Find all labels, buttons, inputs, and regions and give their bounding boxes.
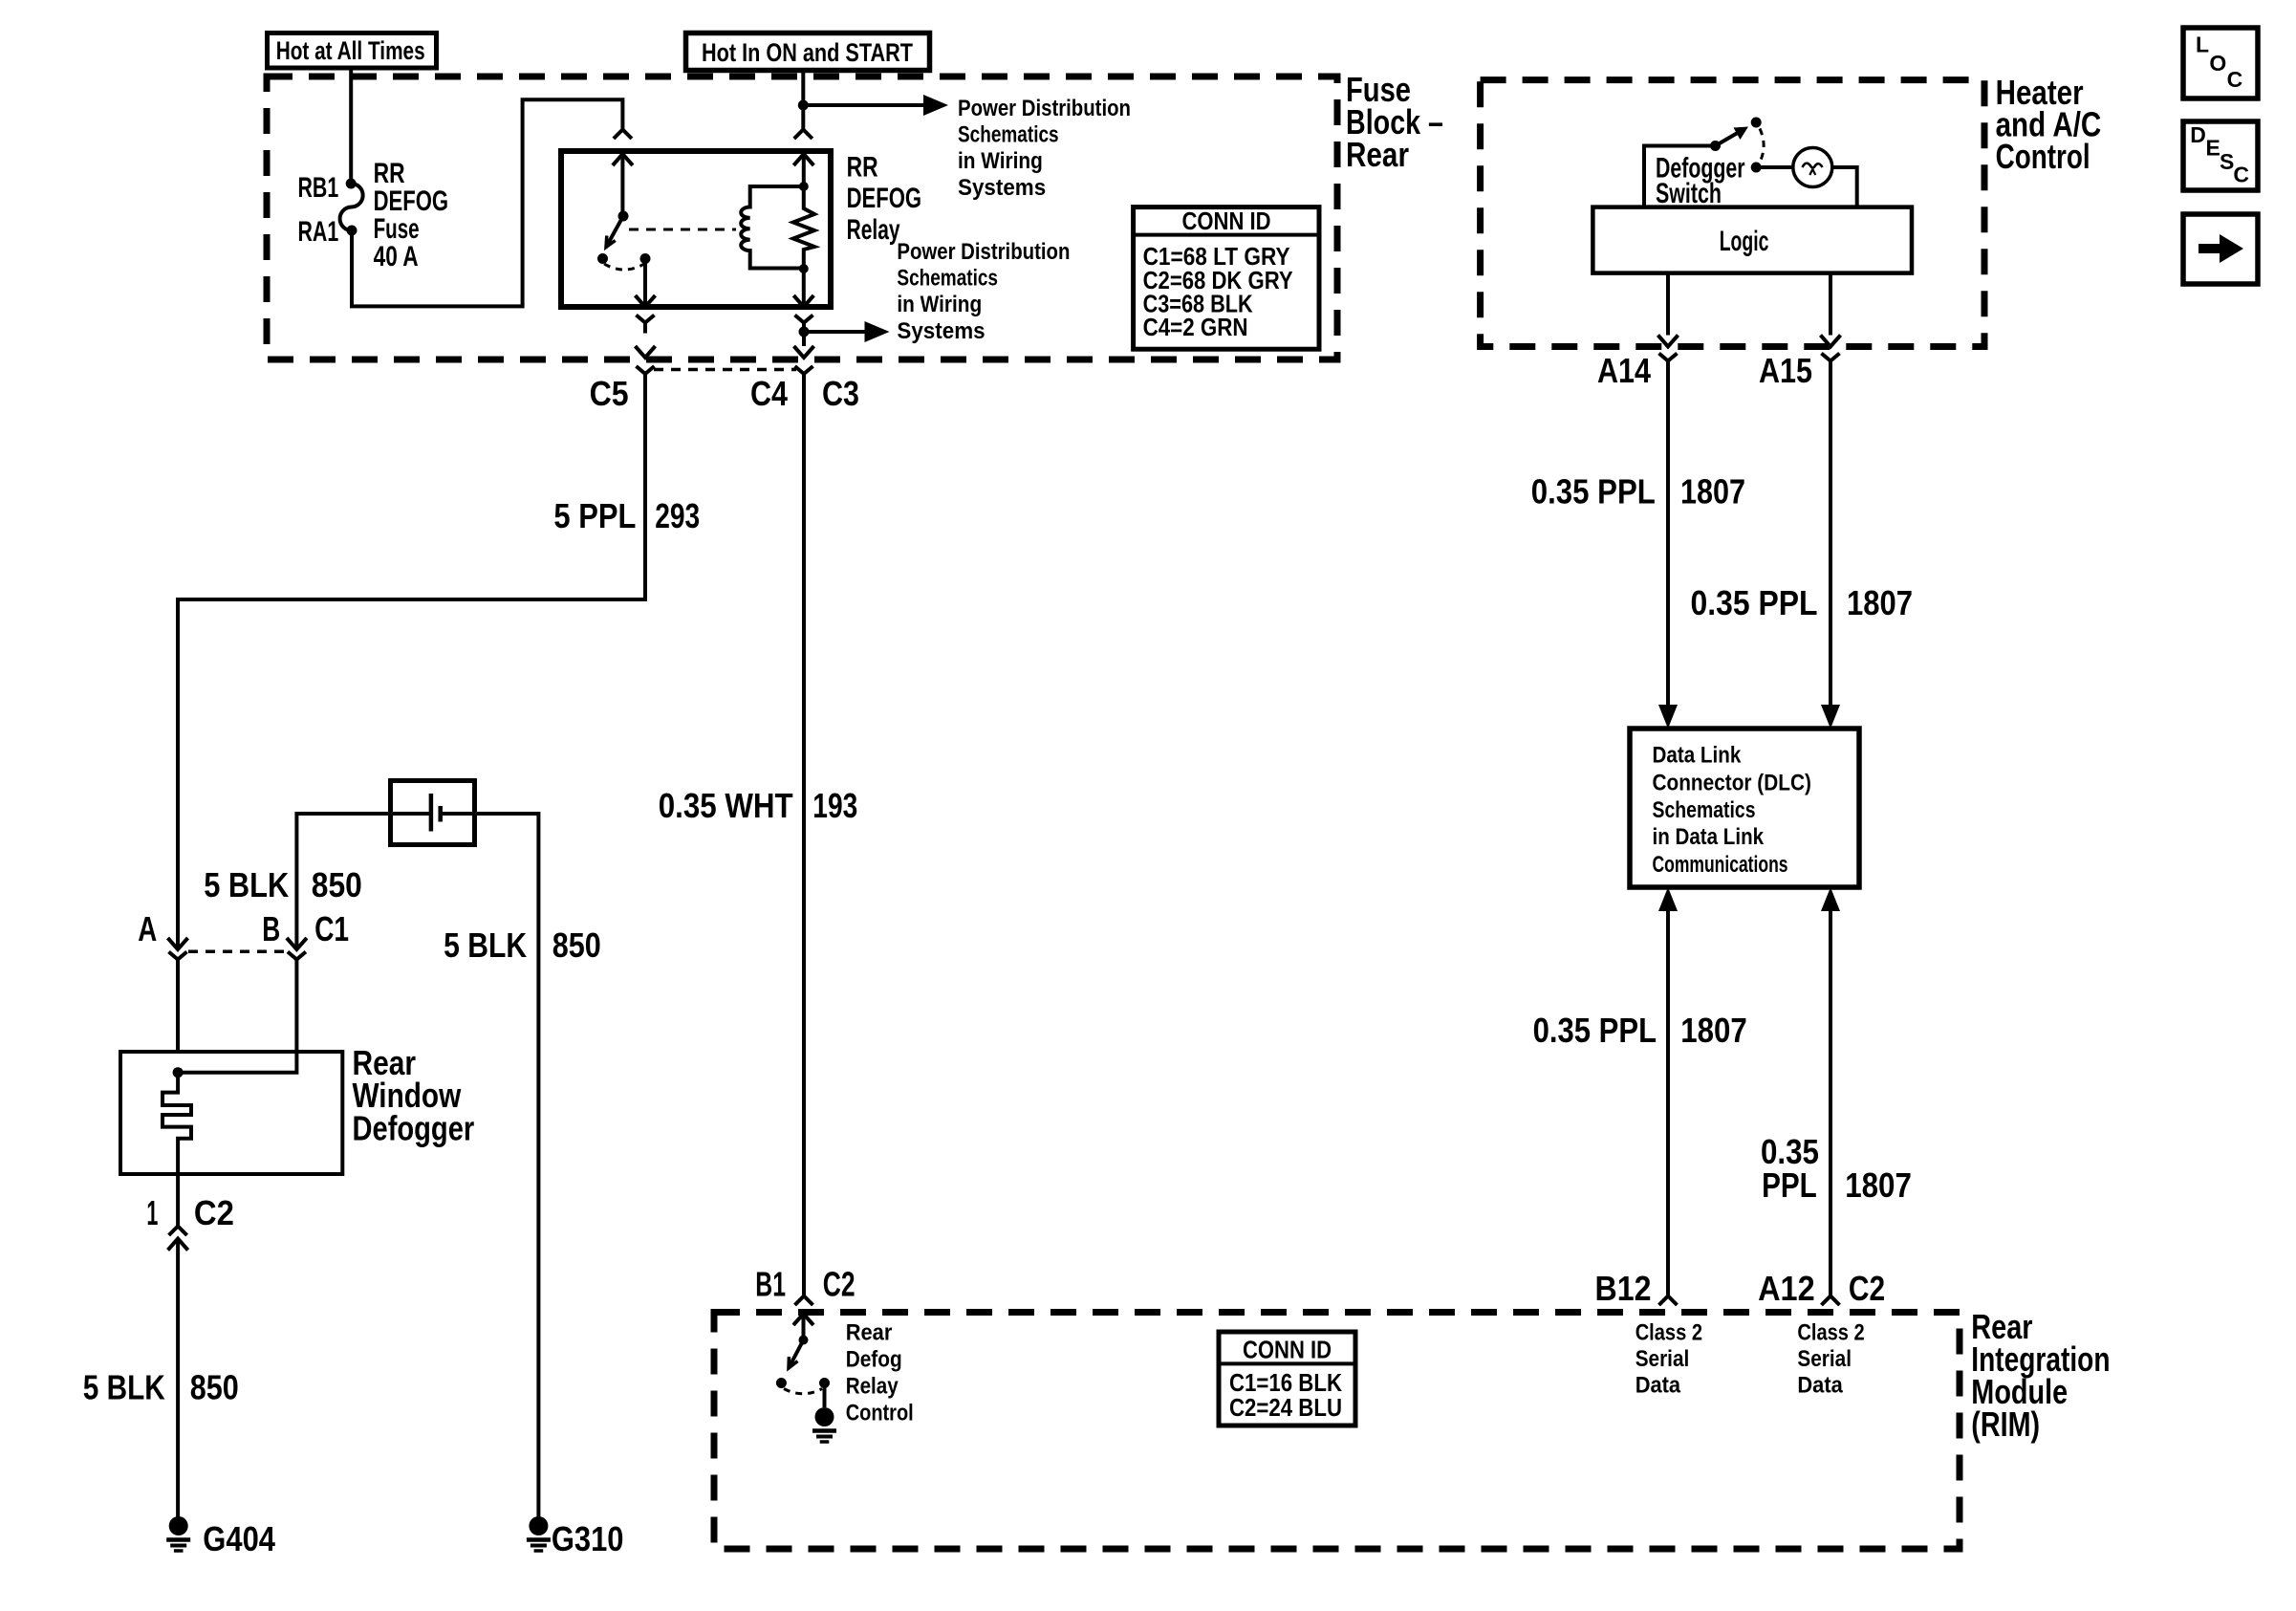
wire: 5 BLK 850 to G404 (176, 1239, 180, 1517)
svg-text:5 BLK: 5 BLK (444, 925, 527, 965)
svg-text:Rear: Rear (1346, 135, 1409, 174)
svg-text:RB1: RB1 (298, 172, 339, 204)
svg-text:in Wiring: in Wiring (958, 148, 1043, 174)
svg-text:C5: C5 (590, 374, 629, 413)
ground G310 (529, 1516, 548, 1535)
svg-text:1807: 1807 (1847, 583, 1913, 622)
fuse RB1 terminal dot (346, 179, 357, 189)
svg-text:C2=24 BLU: C2=24 BLU (1229, 1393, 1342, 1422)
svg-text:Power Distribution: Power Distribution (897, 239, 1070, 265)
Heater and A/C Control dashed outline (1481, 80, 1984, 347)
wire: 5 PPL 293 from C5 down-left to defogger (178, 384, 645, 949)
wire: capacitor right to G310 (441, 814, 539, 1517)
svg-text:Relay: Relay (846, 1374, 899, 1400)
dashed link A-B (188, 950, 287, 954)
Data Link Connector (DLC) box (1630, 729, 1859, 887)
svg-text:Logic: Logic (1720, 226, 1769, 257)
svg-text:G404: G404 (203, 1519, 275, 1558)
svg-text:S: S (2220, 149, 2234, 174)
svg-text:B1: B1 (755, 1265, 786, 1304)
svg-text:D: D (2190, 122, 2206, 147)
relay coil bottom junction dot (799, 264, 809, 273)
svg-text:B: B (262, 909, 280, 948)
RIM switch dashed throw arc (784, 1389, 822, 1394)
svg-text:Schematics: Schematics (897, 266, 998, 292)
wire: relay switch output to box bottom (643, 259, 647, 308)
svg-text:Data: Data (1635, 1373, 1681, 1399)
connector fork below relay pin C5 side (637, 316, 655, 323)
connector chevrons at defogger pin 1 (169, 1227, 187, 1236)
svg-text:1807: 1807 (1680, 1011, 1747, 1050)
relay coil (4 arcs) (741, 186, 804, 269)
svg-text:E: E (2206, 135, 2220, 160)
wire: 0.35 WHT 193 from C4 down to RIM (802, 384, 806, 1296)
wire: coil bottom to relay box bottom (802, 269, 806, 307)
defogger grid element (162, 1073, 191, 1174)
svg-text:C2: C2 (194, 1193, 234, 1232)
wire: switch to indicator lamp (1761, 165, 1793, 169)
wire: coil output to border (802, 332, 806, 346)
Rear Window Defogger box (120, 1052, 342, 1174)
svg-text:PPL: PPL (1762, 1165, 1817, 1205)
arrow: to Power Distribution Schematics (top) (803, 103, 923, 107)
relay switch input arrow inside box (613, 154, 633, 165)
dashed connector link C5-C4 (654, 368, 796, 372)
relay switch contact dot left (597, 253, 608, 264)
Rear Integration Module dashed outline (714, 1313, 1960, 1550)
relay coil pin arrow inside box (793, 154, 813, 165)
svg-text:Class 2: Class 2 (1635, 1320, 1702, 1346)
relay switch dashed link to coil (629, 229, 736, 231)
noise suppressor capacitor box (391, 781, 475, 845)
svg-text:Systems: Systems (958, 175, 1046, 201)
svg-text:5 BLK: 5 BLK (204, 865, 289, 904)
RIM switch contact dot left (776, 1378, 787, 1388)
defogger switch dashed throw arc (1760, 129, 1764, 162)
svg-text:1807: 1807 (1680, 472, 1745, 512)
relay switch dashed throw arc (604, 264, 644, 270)
svg-text:40 A: 40 A (374, 241, 419, 272)
wire: ignition feed down to relay coil pin (801, 69, 805, 130)
svg-text:A12: A12 (1758, 1269, 1815, 1308)
svg-text:O: O (2209, 51, 2226, 76)
header box: Hot In ON and START (686, 33, 930, 71)
fuse RA1 terminal dot (347, 226, 357, 236)
svg-text:RR: RR (847, 152, 878, 184)
wire: defogger pin 1 to chevrons (176, 1174, 180, 1227)
svg-text:Class 2: Class 2 (1797, 1320, 1864, 1346)
wire: battery feed into fuse RB1 (349, 68, 353, 184)
svg-text:C: C (2227, 67, 2243, 92)
defogger switch lower contact dot (1751, 163, 1762, 173)
svg-text:Relay: Relay (847, 214, 900, 246)
junction dot below relay coil output (799, 327, 810, 337)
wire: capacitor left to B connector (296, 814, 431, 949)
relay switch contact dot right (640, 253, 651, 264)
svg-text:850: 850 (190, 1368, 239, 1407)
svg-text:DEFOG: DEFOG (847, 183, 922, 214)
svg-text:Data Link: Data Link (1653, 743, 1742, 769)
connector C5 fork below fuse block (637, 366, 655, 374)
connector B chevrons (287, 938, 307, 949)
RIM switch pivot dot (799, 1336, 809, 1345)
wire: 0.35 PPL 1807 (A15) to DLC (1829, 372, 1832, 706)
svg-text:0.35 PPL: 0.35 PPL (1533, 1011, 1657, 1050)
header box: Hot at All Times (268, 33, 437, 69)
svg-text:Serial: Serial (1635, 1346, 1690, 1372)
svg-text:C3: C3 (822, 374, 859, 413)
next-page arrow legend box (2183, 214, 2258, 284)
relay switch pivot dot (618, 211, 629, 222)
svg-text:A: A (138, 909, 157, 948)
DESC legend box (2183, 121, 2258, 190)
capacitor plates (429, 794, 434, 832)
svg-text:850: 850 (312, 865, 362, 904)
connector C4 fork below fuse block (795, 366, 813, 374)
relay coil top junction dot (799, 182, 809, 191)
svg-text:Hot In ON and START: Hot In ON and START (702, 38, 913, 67)
LOC legend box (2183, 28, 2258, 98)
wire: A12 serial data to RIM (1821, 887, 1840, 911)
defogger switch arm with arrowhead (1716, 131, 1743, 146)
defogger switch pivot dot (1710, 141, 1721, 151)
svg-text:5 PPL: 5 PPL (553, 496, 636, 535)
connector fork below relay coil output (795, 316, 813, 323)
ground symbol inside RIM (815, 1407, 834, 1426)
svg-text:Connector (DLC): Connector (DLC) (1653, 770, 1811, 795)
svg-text:Schematics: Schematics (1653, 797, 1756, 823)
svg-text:Control: Control (846, 1401, 914, 1426)
svg-text:A14: A14 (1597, 351, 1651, 390)
wire: B12 serial data to RIM (1658, 887, 1678, 911)
svg-text:G310: G310 (552, 1519, 624, 1558)
connector A on defogger feed (168, 938, 188, 949)
junction dot on ignition feed (798, 100, 809, 111)
svg-text:5 BLK: 5 BLK (83, 1368, 165, 1407)
fuse RR DEFOG 40A S-curve element (340, 184, 363, 230)
svg-text:Data: Data (1797, 1373, 1843, 1399)
wire: lamp to logic box (1832, 167, 1857, 207)
svg-text:C4: C4 (750, 374, 788, 413)
svg-text:Rear: Rear (846, 1320, 893, 1346)
svg-text:293: 293 (655, 496, 700, 535)
RIM relay control arrow into module (793, 1314, 813, 1325)
svg-text:B12: B12 (1595, 1269, 1652, 1308)
defogger switch box partial outline (1644, 146, 1716, 207)
svg-text:A15: A15 (1759, 351, 1812, 390)
indicator lamp circle (1793, 148, 1832, 187)
connector A15 fork below heater box (1822, 354, 1840, 361)
RIM switch contact dot right (819, 1378, 830, 1388)
CONN ID table for RIM (1219, 1332, 1355, 1426)
wire: fuse RA1 to relay switch input (loop) (352, 99, 622, 306)
svg-text:1: 1 (146, 1193, 158, 1232)
svg-text:0.35 PPL: 0.35 PPL (1691, 583, 1818, 622)
svg-text:Serial: Serial (1797, 1346, 1852, 1372)
svg-text:Schematics: Schematics (958, 122, 1059, 148)
relay RR DEFOG Relay box (561, 151, 831, 307)
svg-text:1807: 1807 (1845, 1165, 1912, 1205)
svg-text:C1: C1 (314, 909, 349, 948)
svg-text:CONN ID: CONN ID (1243, 1336, 1332, 1364)
RIM switch arm with arrowhead (789, 1340, 804, 1369)
svg-text:in Data Link: in Data Link (1653, 824, 1765, 850)
wire: relay output to fuse block border (636, 346, 656, 358)
wire: contact to ground (823, 1383, 827, 1408)
svg-text:CONN ID: CONN ID (1182, 207, 1271, 235)
svg-text:Switch: Switch (1656, 178, 1722, 209)
svg-text:C2: C2 (823, 1265, 856, 1304)
svg-text:C2: C2 (1849, 1269, 1885, 1308)
svg-text:850: 850 (552, 925, 601, 965)
svg-text:(RIM): (RIM) (1971, 1404, 2040, 1444)
arrow: to Power Distribution Schematics (lower) (804, 330, 865, 334)
svg-text:Control: Control (1996, 137, 2090, 176)
junction dot inside defogger (173, 1067, 184, 1078)
svg-text:in Wiring: in Wiring (897, 292, 982, 317)
svg-text:Defog: Defog (846, 1347, 902, 1373)
svg-text:L: L (2196, 33, 2209, 57)
svg-text:Defogger: Defogger (353, 1108, 475, 1147)
wire: logic output A14 to border (1666, 273, 1670, 336)
svg-text:C4=2 GRN: C4=2 GRN (1143, 313, 1248, 341)
Logic box (1592, 207, 1912, 273)
svg-text:C: C (2233, 162, 2249, 186)
svg-text:193: 193 (812, 786, 857, 825)
connector fork B1 above RIM (795, 1296, 813, 1306)
svg-text:RA1: RA1 (298, 216, 339, 248)
svg-text:0.35 WHT: 0.35 WHT (659, 786, 793, 825)
connector fork above relay pin 1 (614, 130, 632, 140)
relay resistor zigzag (793, 186, 814, 269)
connector fork above relay coil pin (794, 130, 812, 140)
svg-text:Power Distribution: Power Distribution (958, 96, 1131, 121)
svg-text:Systems: Systems (897, 318, 985, 344)
wire: logic output A15 to border (1829, 273, 1832, 336)
connector A14 fork below heater box (1659, 354, 1678, 361)
CONN ID table for fuse block (1134, 207, 1319, 350)
relay switch arm with arrowhead (606, 216, 623, 248)
svg-text:0.35 PPL: 0.35 PPL (1531, 472, 1656, 512)
Fuse Block - Rear dashed outline (267, 76, 1337, 359)
svg-text:Hot at All Times: Hot at All Times (276, 36, 425, 65)
defogger switch top contact dot (1751, 118, 1762, 128)
svg-text:Communications: Communications (1653, 852, 1788, 878)
wire: 0.35 PPL 1807 (A14) to DLC (1666, 372, 1670, 706)
ground G404 (169, 1516, 188, 1535)
